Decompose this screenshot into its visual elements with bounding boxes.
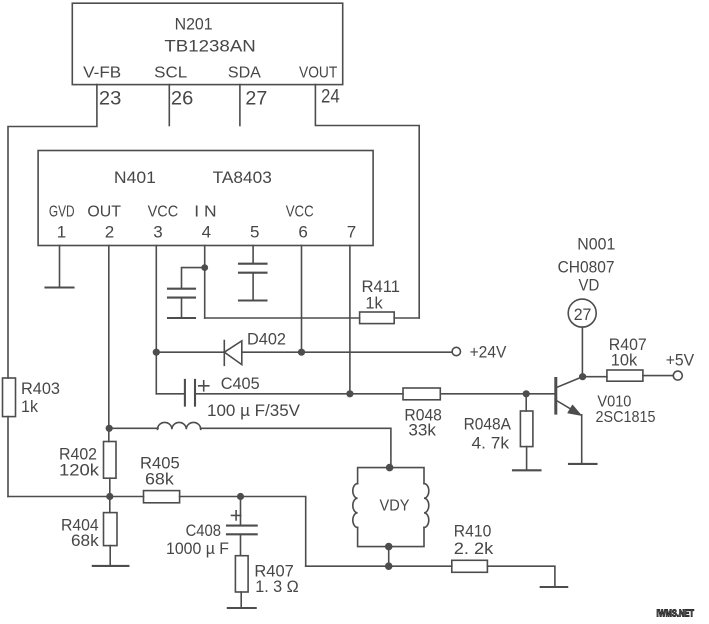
svg-text:N001: N001 xyxy=(577,235,615,254)
svg-text:1k: 1k xyxy=(21,397,38,416)
svg-text:VOUT: VOUT xyxy=(299,65,337,82)
svg-text:4: 4 xyxy=(202,223,211,242)
svg-text:33k: 33k xyxy=(408,421,436,440)
svg-text:TB1238AN: TB1238AN xyxy=(164,37,255,56)
svg-text:SCL: SCL xyxy=(154,65,187,82)
svg-text:C405: C405 xyxy=(221,374,260,393)
svg-text:V-FB: V-FB xyxy=(83,65,121,82)
svg-text:V010: V010 xyxy=(597,394,631,411)
svg-text:TA8403: TA8403 xyxy=(213,168,272,187)
svg-text:1. 3 Ω: 1. 3 Ω xyxy=(255,577,299,596)
svg-text:100 µ F/35V: 100 µ F/35V xyxy=(207,401,301,420)
svg-text:IWMS.NET: IWMS.NET xyxy=(657,608,695,619)
svg-text:2SC1815: 2SC1815 xyxy=(596,409,656,426)
svg-text:+5V: +5V xyxy=(666,351,695,370)
svg-text:CH0807: CH0807 xyxy=(558,258,615,277)
svg-text:C408: C408 xyxy=(186,521,221,540)
svg-text:R048A: R048A xyxy=(464,415,512,434)
svg-text:N201: N201 xyxy=(175,15,213,34)
svg-text:68k: 68k xyxy=(71,531,99,550)
svg-text:6: 6 xyxy=(298,223,307,242)
svg-text:SDA: SDA xyxy=(228,65,261,82)
svg-text:OUT: OUT xyxy=(87,204,121,221)
svg-text:R410: R410 xyxy=(454,522,492,541)
svg-text:N401: N401 xyxy=(114,168,156,187)
svg-text:26: 26 xyxy=(171,89,193,110)
svg-text:1: 1 xyxy=(57,223,66,242)
svg-text:10k: 10k xyxy=(611,351,638,370)
svg-text:27: 27 xyxy=(245,89,267,110)
svg-text:VCC: VCC xyxy=(148,204,179,221)
svg-text:VD: VD xyxy=(579,276,600,295)
svg-text:3: 3 xyxy=(153,223,162,242)
svg-text:120k: 120k xyxy=(59,461,100,480)
svg-text:5: 5 xyxy=(250,223,259,242)
svg-text:7: 7 xyxy=(347,223,356,242)
svg-text:68k: 68k xyxy=(145,470,174,489)
svg-text:1000 µ F: 1000 µ F xyxy=(166,539,229,558)
svg-text:VCC: VCC xyxy=(286,204,314,221)
svg-text:4. 7k: 4. 7k xyxy=(472,434,510,453)
svg-text:1k: 1k xyxy=(365,294,383,313)
svg-text:I N: I N xyxy=(194,204,216,221)
svg-text:2. 2k: 2. 2k xyxy=(454,539,494,558)
svg-text:2: 2 xyxy=(105,223,114,242)
svg-text:27: 27 xyxy=(574,305,592,324)
svg-text:D402: D402 xyxy=(247,330,286,349)
svg-text:24: 24 xyxy=(321,87,340,108)
svg-text:VDY: VDY xyxy=(380,498,410,515)
svg-text:23: 23 xyxy=(99,89,122,110)
svg-text:R403: R403 xyxy=(21,379,60,398)
svg-text:GVD: GVD xyxy=(49,204,75,221)
svg-text:+24V: +24V xyxy=(470,343,507,362)
